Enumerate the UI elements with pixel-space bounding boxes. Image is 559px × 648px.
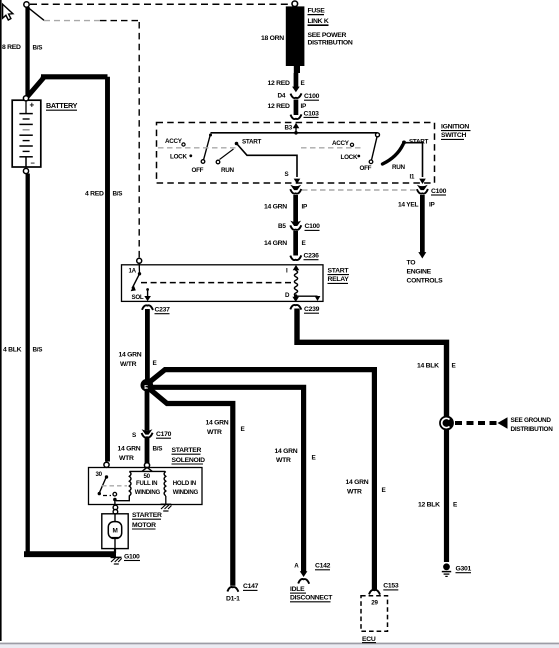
- wire winding bottom to contact junction: [114, 500, 116, 506]
- svg-text:4 BLK: 4 BLK: [3, 347, 22, 354]
- svg-text:ACCY: ACCY: [165, 138, 183, 145]
- wire ignition feed rail: [211, 132, 378, 134]
- contact OFF right: [369, 160, 373, 164]
- wire dashed bus to fuse link: [30, 3, 291, 5]
- svg-text:29: 29: [371, 599, 378, 606]
- wire 8 RED B/S battery feed: [25, 7, 29, 97]
- svg-text:D4: D4: [278, 92, 286, 99]
- contact OFF left: [201, 160, 205, 164]
- ground hold-in winding: [161, 496, 172, 511]
- svg-text:B5: B5: [278, 223, 286, 230]
- svg-text:S: S: [285, 171, 289, 178]
- connector C239: [290, 305, 301, 310]
- svg-text:WINDING: WINDING: [135, 489, 161, 496]
- svg-text:LOCK: LOCK: [341, 154, 358, 161]
- svg-text:SEE POWER: SEE POWER: [308, 32, 347, 39]
- svg-text:C170: C170: [156, 431, 172, 438]
- wire 14 GRN WTR splice to C153: [149, 370, 374, 590]
- grommet ground distribution: [439, 416, 454, 431]
- svg-text:14 GRN: 14 GRN: [264, 240, 287, 247]
- node fuse link terminal: [292, 1, 298, 7]
- connector C147: [227, 587, 238, 592]
- pin SOL exit arrow: [146, 288, 149, 291]
- svg-text:DISCONNECT: DISCONNECT: [290, 595, 333, 602]
- svg-text:WTR: WTR: [276, 457, 291, 464]
- wire 14 GRN IP S to C100 B5: [293, 195, 298, 222]
- svg-text:B3: B3: [285, 125, 293, 132]
- pin 1A: [138, 263, 140, 273]
- svg-text:G301: G301: [456, 566, 472, 573]
- splice junction: [141, 379, 154, 392]
- svg-text:M: M: [112, 528, 117, 535]
- battery negative terminal node: [23, 168, 28, 173]
- svg-text:STARTER: STARTER: [172, 447, 202, 454]
- svg-text:OFF: OFF: [360, 165, 372, 172]
- fuse link K (18 ORN): [286, 6, 305, 66]
- ground G100: [111, 557, 122, 564]
- connector C142: [300, 571, 308, 577]
- node solenoid 30 terminal: [104, 462, 109, 467]
- svg-text:C100: C100: [431, 188, 447, 195]
- svg-text:18 ORN: 18 ORN: [261, 35, 284, 42]
- svg-text:50: 50: [144, 473, 151, 480]
- svg-text:30: 30: [96, 471, 103, 478]
- pin I1 exit arrow: [419, 179, 426, 184]
- svg-text:B/S: B/S: [33, 44, 43, 51]
- svg-text:WTR: WTR: [119, 455, 134, 462]
- svg-text:IGNITION: IGNITION: [441, 123, 469, 130]
- ignition switch: [157, 123, 435, 184]
- svg-text:C100: C100: [305, 223, 321, 230]
- svg-text:C236: C236: [304, 253, 320, 260]
- svg-text:SOLENOID: SOLENOID: [172, 457, 206, 464]
- svg-text:RUN: RUN: [221, 167, 235, 174]
- solenoid moving contact: [113, 492, 117, 496]
- battery: [12, 100, 41, 168]
- pin S exit arrow: [294, 179, 301, 184]
- svg-text:START: START: [328, 267, 350, 274]
- svg-text:OFF: OFF: [192, 167, 204, 174]
- svg-text:LINK K: LINK K: [308, 18, 329, 25]
- wire 4 RED B/S battery to solenoid 30: [28, 77, 44, 97]
- svg-text:1A: 1A: [129, 268, 137, 275]
- connector C103: [291, 114, 302, 119]
- node solenoid output: [113, 505, 118, 510]
- node motor input: [113, 510, 118, 515]
- svg-text:HOLD IN: HOLD IN: [173, 480, 196, 487]
- svg-text:FULL IN: FULL IN: [136, 480, 157, 487]
- connector C100 B5: [290, 221, 301, 226]
- contact RUN left: [216, 160, 220, 164]
- pin B3 entry arrow: [295, 126, 297, 133]
- starter motor: [102, 514, 128, 549]
- svg-text:C100: C100: [304, 93, 320, 100]
- solenoid dashed linkages: [102, 485, 127, 487]
- connector C100 boundary line: [302, 189, 417, 191]
- wire 14 GRN WTR splice to starter solenoid S: [145, 389, 150, 431]
- svg-text:SEE GROUND: SEE GROUND: [511, 417, 552, 424]
- svg-text:SOL: SOL: [132, 294, 144, 301]
- relay contact dashed: [141, 282, 293, 284]
- svg-text:WINDING: WINDING: [173, 489, 199, 496]
- wire 14 YEL IP to engine controls: [420, 195, 425, 253]
- wire 14 GRN WTR splice to C142: [150, 387, 304, 571]
- mouse cursor: [3, 4, 13, 20]
- junction node at B3: [294, 131, 298, 135]
- svg-text:RUN: RUN: [392, 164, 406, 171]
- svg-text:D1-1: D1-1: [226, 595, 240, 602]
- see ground distribution callout: [455, 417, 553, 433]
- relay coil: [294, 271, 297, 297]
- svg-text:START: START: [242, 139, 262, 146]
- svg-text:14 GRN: 14 GRN: [346, 479, 369, 486]
- svg-text:CONTROLS: CONTROLS: [407, 278, 444, 285]
- node battery feed terminal: [24, 2, 29, 7]
- svg-text:MOTOR: MOTOR: [132, 522, 156, 529]
- connector C237: [142, 305, 153, 310]
- svg-text:14 GRN: 14 GRN: [206, 420, 229, 427]
- svg-text:12 BLK: 12 BLK: [418, 502, 440, 509]
- connector at I1 wire C100: [417, 185, 428, 190]
- svg-text:C142: C142: [315, 563, 331, 570]
- connector C236: [290, 255, 301, 260]
- wire START to S pin: [237, 144, 297, 177]
- wire START to I1 pin: [406, 143, 423, 177]
- ECU: [361, 596, 388, 632]
- svg-text:B/S: B/S: [113, 191, 123, 198]
- svg-text:C237: C237: [155, 307, 171, 314]
- node relay 1A entry: [137, 258, 142, 263]
- svg-text:14 GRN: 14 GRN: [118, 446, 141, 453]
- wire 12 BLK E grommet to G301: [444, 430, 449, 562]
- svg-text:14 BLK: 14 BLK: [417, 362, 439, 369]
- svg-text:TO: TO: [407, 260, 416, 267]
- battery positive terminal node: [23, 96, 28, 101]
- svg-text:B/S: B/S: [33, 347, 43, 354]
- svg-text:DISTRIBUTION: DISTRIBUTION: [308, 40, 353, 47]
- svg-text:C153: C153: [383, 583, 399, 590]
- connector at S wire: [290, 185, 301, 190]
- svg-text:FUSE: FUSE: [308, 8, 326, 15]
- full in winding coil: [116, 471, 131, 500]
- ground G301: [442, 563, 451, 576]
- connector C170: [142, 429, 153, 434]
- svg-text:14 GRN: 14 GRN: [264, 204, 287, 211]
- svg-text:WTR: WTR: [207, 429, 222, 436]
- start relay: [122, 265, 324, 302]
- svg-text:ENGINE: ENGINE: [407, 269, 432, 276]
- wire 14 GRN W/TR relay to splice: [145, 309, 150, 381]
- switch lever left half: [209, 134, 212, 137]
- contact START right: [402, 141, 406, 145]
- pin I entry arrow: [295, 268, 297, 272]
- left frame border: [0, 0, 2, 641]
- pin D exit arrow: [292, 297, 299, 302]
- connector C100: [291, 93, 302, 98]
- svg-text:RELAY: RELAY: [328, 276, 350, 283]
- svg-text:C239: C239: [304, 306, 320, 313]
- wire 4 BLK B/S battery negative to ground run: [26, 174, 30, 555]
- svg-text:C147: C147: [243, 583, 259, 590]
- wire 14 GRN WTR splice to C147: [149, 389, 233, 586]
- relay armature lever: [132, 274, 140, 289]
- svg-text:WTR: WTR: [347, 488, 362, 495]
- relay ground strap arrow: [297, 295, 318, 297]
- run-start arc right: [383, 145, 404, 165]
- wire motor to ground run: [114, 549, 116, 554]
- svg-text:+: +: [30, 101, 35, 110]
- svg-text:8 RED: 8 RED: [2, 44, 21, 51]
- svg-text:LOCK: LOCK: [170, 154, 187, 161]
- svg-text:14 GRN: 14 GRN: [119, 352, 142, 359]
- svg-text:14 GRN: 14 GRN: [275, 448, 298, 455]
- wire dashed branch to start relay 1A: [29, 8, 44, 20]
- node solenoid S terminal: [144, 463, 149, 468]
- wire S terminal into windings: [142, 467, 152, 471]
- svg-text:SWITCH: SWITCH: [441, 132, 466, 139]
- wire 12 RED E fuse to C100: [294, 73, 299, 88]
- svg-text:12 RED: 12 RED: [268, 103, 290, 110]
- gray rail right half: [301, 147, 363, 149]
- svg-text:STARTER: STARTER: [132, 512, 162, 519]
- svg-text:B/S: B/S: [153, 446, 163, 453]
- svg-text:C103: C103: [304, 110, 320, 117]
- svg-text:4 RED: 4 RED: [85, 191, 104, 198]
- wire 12 RED IP C100 to C103: [294, 100, 299, 116]
- starter solenoid: [89, 468, 203, 505]
- svg-text:IDLE: IDLE: [290, 586, 305, 593]
- motor armature M: [114, 514, 116, 523]
- svg-text:G100: G100: [124, 553, 140, 560]
- svg-text:W/TR: W/TR: [120, 361, 137, 368]
- switch lever right half: [376, 133, 380, 137]
- svg-text:14 YEL: 14 YEL: [398, 202, 418, 209]
- svg-text:BATTERY: BATTERY: [46, 101, 78, 110]
- wire 14 BLK E relay D to grommet: [297, 309, 447, 417]
- solenoid switch lever: [100, 477, 107, 493]
- wire 14 GRN E C100 to C236: [293, 231, 298, 256]
- connector C153: [369, 590, 380, 595]
- bottom scrollbar strip: [0, 643, 559, 645]
- gray rail left half: [158, 147, 236, 149]
- contact START left: [235, 142, 239, 146]
- svg-text:DISTRIBUTION: DISTRIBUTION: [511, 426, 554, 433]
- svg-text:ECU: ECU: [362, 636, 376, 643]
- hold in winding coil: [164, 471, 166, 495]
- svg-text:12 RED: 12 RED: [268, 80, 290, 87]
- svg-text:ACCY: ACCY: [332, 140, 350, 147]
